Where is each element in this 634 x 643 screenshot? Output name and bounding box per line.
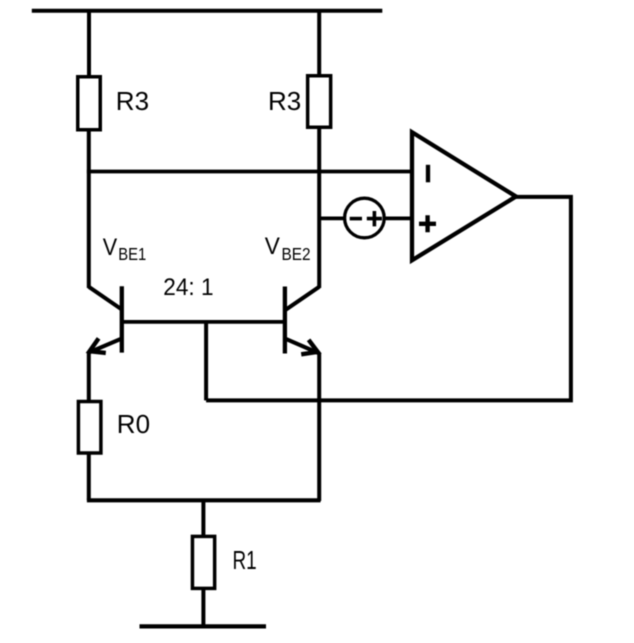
svg-text:V: V — [265, 233, 280, 260]
svg-text:24: 1: 24: 1 — [163, 274, 213, 301]
svg-text:R0: R0 — [117, 409, 150, 439]
svg-text:R3: R3 — [268, 86, 301, 116]
svg-text:BE2: BE2 — [282, 244, 311, 264]
svg-text:R1: R1 — [233, 545, 257, 575]
svg-text:BE1: BE1 — [118, 244, 146, 264]
svg-text:R3: R3 — [116, 86, 149, 116]
svg-text:V: V — [103, 234, 117, 261]
